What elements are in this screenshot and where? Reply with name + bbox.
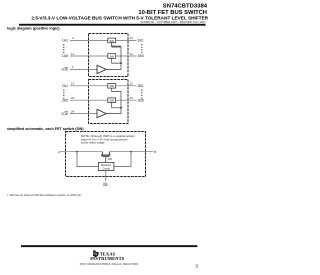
wire 1A5 left bbox=[70, 55, 108, 57]
buffer U1 bbox=[97, 65, 106, 73]
switch SW 3 bbox=[108, 84, 116, 89]
wire left drop to resistor circuit bbox=[77, 152, 98, 167]
svg-text:1OE: 1OE bbox=[61, 68, 69, 72]
junction dot box1 bbox=[120, 62, 122, 64]
group box 1 outline bbox=[89, 34, 129, 77]
svg-text:1A5: 1A5 bbox=[62, 54, 68, 58]
svg-text:POST OFFICE BOX 655303 • DALLA: POST OFFICE BOX 655303 • DALLAS, TEXAS 7… bbox=[80, 263, 139, 266]
svg-text:† OE has an internal 100-kΩ pu: † OE has an internal 100-kΩ pulldown res… bbox=[7, 193, 82, 197]
svg-text:2A5: 2A5 bbox=[62, 98, 68, 102]
wire 1B1 right bbox=[116, 39, 137, 41]
header rule bbox=[19, 24, 206, 26]
pin label 2OE with overline bbox=[61, 112, 69, 116]
svg-text:1B1: 1B1 bbox=[138, 39, 144, 43]
svg-text:1B5: 1B5 bbox=[138, 54, 144, 58]
svg-text:SCDS027E – OCTOBER 1997 – REVI: SCDS027E – OCTOBER 1997 – REVISED JULY 2… bbox=[140, 20, 206, 24]
wire 2B5 right bbox=[116, 99, 137, 101]
wire transistor to B bbox=[109, 151, 153, 153]
svg-text:12: 12 bbox=[130, 82, 134, 86]
svg-text:11: 11 bbox=[71, 52, 74, 56]
switch SW 4 bbox=[108, 98, 116, 103]
group box 2 outline bbox=[89, 80, 129, 124]
svg-text:SW: SW bbox=[109, 39, 114, 43]
svg-text:INSTRUMENTS: INSTRUMENTS bbox=[90, 256, 125, 261]
wire 2A5 left bbox=[70, 99, 108, 101]
svg-text:1A1: 1A1 bbox=[62, 39, 68, 43]
svg-text:2OE: 2OE bbox=[61, 112, 69, 116]
wire 2OE input bbox=[70, 113, 97, 115]
svg-text:SW: SW bbox=[109, 99, 114, 103]
svg-text:Circuit: Circuit bbox=[102, 166, 110, 170]
svg-text:2B5: 2B5 bbox=[138, 98, 144, 102]
svg-text:13: 13 bbox=[71, 82, 75, 86]
svg-text:2A1: 2A1 bbox=[62, 84, 68, 88]
svg-text:3: 3 bbox=[195, 263, 198, 269]
ellipsis dots right box2 bbox=[141, 90, 142, 99]
transistor Q1 pass FET bbox=[101, 152, 111, 163]
wire OE lead bbox=[105, 171, 107, 182]
node OE label with overline and dagger bbox=[103, 183, 109, 187]
svg-text:2B1: 2B1 bbox=[138, 84, 144, 88]
control branch to SW 4 bbox=[112, 103, 121, 108]
buffer U2 bbox=[97, 109, 106, 117]
wire A to transistor bbox=[60, 151, 102, 153]
wire 1OE input bbox=[70, 68, 97, 70]
junction dot left node bbox=[76, 151, 78, 153]
svg-text:logic diagram (positive logic): logic diagram (positive logic) bbox=[7, 27, 60, 31]
wire 1B5 right bbox=[116, 55, 137, 57]
svg-text:simplified schematic, each FET: simplified schematic, each FET switch (S… bbox=[7, 127, 84, 131]
switch SW 1 bbox=[108, 38, 116, 43]
svg-text:24: 24 bbox=[71, 109, 75, 113]
schematic outline box bbox=[66, 132, 146, 177]
control branch to SW 2 bbox=[112, 58, 121, 63]
svg-text:SW: SW bbox=[109, 54, 114, 58]
svg-text:SN74CBTD3384: SN74CBTD3384 bbox=[163, 4, 208, 10]
svg-text:23: 23 bbox=[130, 36, 134, 40]
control wire from buffer U2 bbox=[106, 88, 121, 114]
ellipsis dots right box1 bbox=[141, 44, 142, 53]
TI logo symbol bbox=[93, 250, 99, 257]
svg-text:15: 15 bbox=[130, 96, 134, 100]
ellipsis dots left box1 bbox=[63, 44, 64, 53]
control branch to SW 1 bbox=[112, 43, 121, 46]
footer rule bbox=[21, 245, 197, 247]
resistor circuit block bbox=[98, 162, 114, 170]
wire 2B1 right bbox=[116, 85, 137, 87]
wire right drop to resistor circuit bbox=[114, 152, 131, 167]
control wire from buffer to switches bbox=[106, 43, 121, 70]
pin label 1OE with overline bbox=[61, 67, 69, 71]
svg-text:SW: SW bbox=[109, 84, 114, 88]
wire 1A1 left bbox=[70, 39, 108, 41]
wire 2A1 left bbox=[70, 85, 108, 87]
svg-text:14: 14 bbox=[130, 52, 134, 56]
svg-text:22: 22 bbox=[71, 96, 75, 100]
svg-text:under rated usage: under rated usage bbox=[81, 140, 105, 144]
svg-text:B: B bbox=[154, 150, 156, 154]
svg-text:SW: SW bbox=[108, 157, 113, 161]
note text block bbox=[81, 134, 136, 144]
junction dot box2 bbox=[120, 107, 122, 109]
switch SW 2 bbox=[108, 54, 116, 59]
ellipsis dots left box2 bbox=[63, 90, 64, 99]
junction dot right node bbox=[130, 151, 132, 153]
